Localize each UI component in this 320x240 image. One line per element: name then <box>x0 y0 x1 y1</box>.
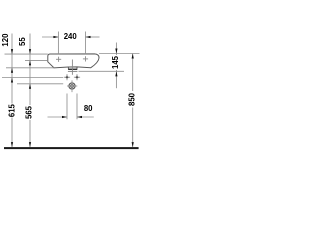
arrow 80 right leftward <box>77 116 82 118</box>
arrow 565 bottom down <box>29 142 31 147</box>
drain axis reference line B <box>17 83 63 85</box>
arrow 240 right leftward <box>86 36 91 38</box>
svg-text:55: 55 <box>18 37 27 46</box>
arrow 145 bottom up <box>115 71 117 76</box>
arrow 565 top up <box>29 84 31 89</box>
drain axis vertical in basin <box>71 60 73 75</box>
arrow 120 bottom up <box>11 68 13 73</box>
arrow 120 top down <box>11 49 13 54</box>
reference line 120 below rim <box>6 67 54 69</box>
siphon outlet circle <box>69 83 75 89</box>
dimension 145 line <box>115 43 117 89</box>
arrow 80 left rightward <box>62 116 67 118</box>
tap hole cross left <box>56 57 61 62</box>
arrow 145 top down <box>115 49 117 54</box>
arrow 850 top up <box>132 54 134 59</box>
svg-text:80: 80 <box>84 104 93 113</box>
siphon crosshair <box>67 80 77 92</box>
svg-text:615: 615 <box>8 103 17 117</box>
left rim reference line <box>5 53 48 55</box>
right rim reference line <box>99 53 140 55</box>
outlet level reference line (145 bottom) <box>79 70 125 72</box>
dimension 850 line <box>132 54 134 148</box>
svg-text:565: 565 <box>24 105 33 119</box>
outlet flange tick <box>68 70 78 72</box>
fixing hole diamond right <box>74 74 80 80</box>
dimension line column x=12 (120 / 615) <box>11 34 13 148</box>
arrow 850 bottom down <box>132 142 134 147</box>
dimension line column x=30 (55 / 565) <box>29 34 31 148</box>
arrow 240 left rightward <box>53 36 58 38</box>
arrow 615 top up <box>11 78 13 83</box>
reference line 55 below rim <box>25 59 48 61</box>
arrow 55 top down <box>29 49 31 54</box>
drain boss bottom (outlet flange, dark) <box>68 68 77 70</box>
svg-text:145: 145 <box>111 55 120 69</box>
svg-text:850: 850 <box>128 92 137 106</box>
arrow 55 bottom up <box>29 60 31 65</box>
arrow 615 bottom down <box>11 142 13 147</box>
svg-text:240: 240 <box>64 32 78 41</box>
ground line <box>4 147 139 149</box>
arrows (filled black triangles) <box>11 36 134 147</box>
fixing hole diamond left <box>64 74 70 80</box>
fixing holes reference line A <box>2 77 63 79</box>
dimension 80 line <box>48 116 94 118</box>
dimension 240 line <box>42 32 100 55</box>
dimension 80 extension lines <box>67 94 77 120</box>
drain boss below basin <box>68 67 77 69</box>
svg-text:120: 120 <box>1 33 10 47</box>
tap hole cross right <box>83 56 88 61</box>
washbasin outline (side profile) <box>48 54 99 68</box>
